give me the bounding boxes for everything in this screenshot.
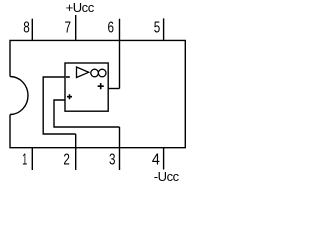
wire from op-amp output to pin 6 [108, 88, 119, 90]
svg-text:+Ucc: +Ucc [66, 0, 95, 15]
pin 5 [163, 18, 165, 40]
svg-text:2: 2 [63, 152, 70, 169]
inverting input minus marker [66, 76, 70, 78]
output plus marker [98, 83, 104, 89]
svg-text:5: 5 [154, 19, 161, 36]
pin 3 and wire from non-inverting input [119, 127, 121, 170]
op-amp U1 body rectangle [65, 63, 108, 111]
wire from inverting input to pin 2 [43, 77, 75, 134]
svg-text:6: 6 [108, 19, 115, 36]
svg-text:7: 7 [65, 19, 72, 36]
wire from non-inverting input to pin 3 [54, 100, 120, 127]
pin 8 [31, 19, 33, 41]
IC body U1 DIP-8 outline with index notch [10, 40, 185, 147]
op-amp amplifier triangle symbol [77, 67, 89, 78]
pin 1 [31, 148, 33, 170]
pin 4 [163, 148, 165, 170]
pin 7 [75, 15, 77, 40]
op-amp infinite gain symbol (infinity) [91, 69, 99, 77]
svg-text:1: 1 [22, 152, 27, 169]
pin 6 and wire to op-amp output [119, 19, 121, 89]
svg-text:8: 8 [23, 19, 30, 36]
svg-text:-Ucc: -Ucc [154, 169, 180, 184]
svg-text:4: 4 [152, 152, 160, 169]
non-inverting input plus marker [67, 94, 72, 99]
pin 2 and wire from inverting input [75, 134, 77, 170]
svg-text:3: 3 [109, 152, 116, 169]
